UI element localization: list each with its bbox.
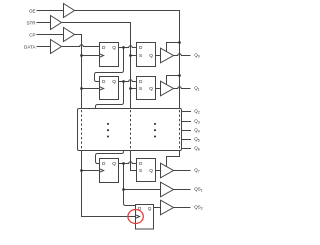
wire CP rail below box down to QS2 flip-flop clock <box>82 151 136 217</box>
svg-text:Q2: Q2 <box>194 108 200 114</box>
wire FF2 Q to latch2 D (hop over strobe rail) <box>119 80 137 82</box>
latch LATCH8 <box>137 159 156 182</box>
wire QS2 output line <box>174 207 191 209</box>
svg-text:S: S <box>139 86 142 91</box>
svg-text:D: D <box>139 79 143 84</box>
junction strobe-latch2 <box>129 87 132 90</box>
svg-text:Q: Q <box>112 79 116 84</box>
junction CP-FF2 <box>80 87 83 90</box>
wire latch1 Q to output buffer <box>156 55 161 57</box>
svg-text:Q: Q <box>149 86 153 91</box>
svg-text:D: D <box>139 161 143 166</box>
wire chain wrap from abbreviation box to FF8 D <box>96 151 124 164</box>
svg-text:Q: Q <box>112 161 116 166</box>
svg-text:STR: STR <box>27 20 37 25</box>
wire FF8 Q to latch8 D (hop over strobe rail) <box>119 162 137 164</box>
wire OE rail dashed inside abbreviation box <box>179 110 181 150</box>
wire CP stub to FF2 clock <box>82 88 100 90</box>
svg-text:DATA: DATA <box>24 44 35 49</box>
wire STR label to buffer <box>37 22 51 24</box>
wire Q1 enable tap to OE rail <box>167 76 180 85</box>
svg-text:QS1: QS1 <box>194 186 203 192</box>
buffer DATA input <box>51 40 62 54</box>
buffer QS1 output <box>161 182 174 197</box>
wire CP clock rail down shift column <box>75 35 82 109</box>
junction OE-Q0 enable <box>178 41 181 44</box>
wire latch8 Q to output buffer <box>156 170 161 172</box>
latch LATCH2 <box>137 77 156 100</box>
wire Q4 stub <box>182 130 192 132</box>
wire CP stub to FF1 clock <box>82 55 100 57</box>
svg-text:CP: CP <box>29 32 35 37</box>
buffer OE input <box>64 4 75 18</box>
flip-flop FF2 (shift stage 2) <box>100 77 119 100</box>
svg-text:Q3: Q3 <box>194 118 200 124</box>
svg-text:D: D <box>102 45 106 50</box>
wire DATA to FF1 D input (hop over CP rail) <box>62 45 100 47</box>
svg-text:S: S <box>139 53 142 58</box>
wire STR rail dashed inside abbreviation box <box>130 110 132 150</box>
buffer STR input <box>51 16 62 30</box>
svg-text:Q: Q <box>149 168 153 173</box>
wire STR rail to latch8 S input <box>131 151 137 171</box>
abbreviation box for stages 3 to 7 <box>78 109 182 151</box>
annotation red circle on QS2 clock input <box>128 210 143 224</box>
wire Q5 stub <box>182 139 192 141</box>
buffer Q7 three-state output <box>161 163 174 178</box>
flip-flop FF8 (shift stage 8) <box>100 159 119 183</box>
wire OE label to buffer <box>37 10 64 12</box>
junction QS1 tee <box>122 188 125 191</box>
wire DATA label to buffer <box>37 46 51 48</box>
wire Q1 output line (hop over OE rail) <box>174 87 191 89</box>
svg-text:Q1: Q1 <box>194 85 200 91</box>
wire Q2 stub <box>182 111 192 113</box>
wire OE rail below box to Q7 enable tap <box>167 151 180 167</box>
flip-flop QS2 (falling-edge stage) <box>136 205 154 230</box>
svg-text:Q0: Q0 <box>194 52 200 58</box>
wire CP rail dashed inside abbreviation box <box>81 110 83 150</box>
wire OE rail: right along top then down right side to dashed box <box>75 11 180 109</box>
wire CP label to buffer <box>37 34 64 36</box>
svg-text:D: D <box>102 79 106 84</box>
buffer Q0 three-state output <box>161 48 174 63</box>
svg-text:D: D <box>139 45 143 50</box>
wire strobe stub to latch1 S <box>131 55 137 57</box>
wire Q3 stub <box>182 121 192 123</box>
svg-text:S: S <box>139 168 142 173</box>
junction FF8 Q node <box>122 162 125 165</box>
junction CP-FF8 <box>80 169 83 172</box>
junction FF2 Q node <box>122 80 125 83</box>
latch LATCH1 <box>137 43 156 67</box>
wire Q0 enable tap to OE rail <box>167 43 180 52</box>
wire latch2 Q to output buffer <box>156 88 161 90</box>
wire chain down to QS2 FF D input <box>124 190 136 206</box>
node ellipsis dots shift column <box>107 123 109 138</box>
svg-text:Q6: Q6 <box>194 145 200 151</box>
wire FF1 Q to latch1 D (hop over strobe rail) <box>119 46 137 48</box>
svg-text:QS2: QS2 <box>194 204 203 210</box>
wire Q7 output line <box>174 170 191 172</box>
buffer Q1 three-state output <box>161 81 174 96</box>
wire Q6 stub <box>182 148 192 150</box>
wire FF8 Q down to QS1 buffer input <box>124 164 161 190</box>
svg-text:Q: Q <box>148 206 152 211</box>
buffer QS2 output <box>161 200 174 215</box>
buffer CP input <box>64 28 75 42</box>
svg-text:D: D <box>102 161 106 166</box>
wire STR strobe rail down latch S column <box>62 23 131 109</box>
junction FF1 Q node <box>122 46 125 49</box>
flip-flop FF1 (shift stage 1) <box>100 43 119 67</box>
svg-text:Q4: Q4 <box>194 127 200 133</box>
junction CP-FF1 <box>80 54 83 57</box>
svg-text:Q: Q <box>112 45 116 50</box>
svg-text:Q: Q <box>149 53 153 58</box>
wire FF2 Q wrap-around into abbreviation box <box>96 82 124 109</box>
wire QS2 FF Q to buffer <box>154 207 161 209</box>
svg-text:Q5: Q5 <box>194 136 200 142</box>
junction OE-Q1 enable <box>178 74 181 77</box>
wire CP stub to FF8 clock <box>82 170 100 172</box>
wire FF1 Q wrap-around to FF2 D <box>95 48 124 82</box>
svg-text:OE: OE <box>29 8 36 13</box>
junction strobe-latch1 <box>129 54 132 57</box>
wire Q0 output line (hop over OE rail) <box>174 54 191 56</box>
wire QS1 output line <box>174 189 191 191</box>
wire strobe stub to latch2 S <box>131 88 137 90</box>
node ellipsis dots latch column <box>154 123 156 138</box>
svg-text:Q7: Q7 <box>194 167 200 173</box>
